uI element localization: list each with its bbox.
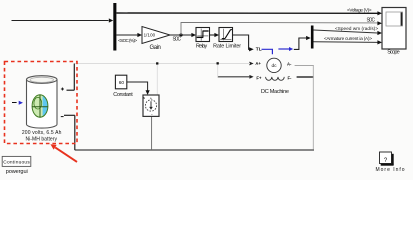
svg-text:Scope: Scope xyxy=(387,50,400,56)
svg-text:<Speed wm (rad/s)>: <Speed wm (rad/s)> xyxy=(335,26,378,31)
svg-text:DC Machine: DC Machine xyxy=(261,89,289,95)
svg-text:Continuous: Continuous xyxy=(3,160,30,166)
svg-text:<Voltage (V)>: <Voltage (V)> xyxy=(347,7,372,12)
svg-text:s: s xyxy=(143,96,145,100)
svg-text:TL: TL xyxy=(256,47,262,53)
svg-text:Rate Limiter: Rate Limiter xyxy=(213,44,241,50)
svg-text:SOC: SOC xyxy=(367,18,376,24)
svg-text:Constant: Constant xyxy=(113,92,133,98)
svg-text:60: 60 xyxy=(119,80,125,86)
svg-text:Ni-MH battery: Ni-MH battery xyxy=(25,137,57,143)
svg-text:Relay: Relay xyxy=(196,44,208,50)
svg-text:F+: F+ xyxy=(256,75,262,80)
svg-text:powergui: powergui xyxy=(6,169,28,175)
svg-text:Gain: Gain xyxy=(150,45,161,51)
svg-text:<Armature current ia (A)>: <Armature current ia (A)> xyxy=(324,36,372,41)
svg-text:F-: F- xyxy=(288,75,293,80)
svg-text:1/100: 1/100 xyxy=(144,32,156,37)
svg-text:200 volts, 6.5 Ah: 200 volts, 6.5 Ah xyxy=(22,130,62,136)
svg-text:dc: dc xyxy=(271,63,277,69)
svg-text:A-: A- xyxy=(287,61,292,66)
svg-text:<SOC (%)>: <SOC (%)> xyxy=(118,38,137,43)
svg-text:A+: A+ xyxy=(255,61,261,66)
svg-text:More Info: More Info xyxy=(376,167,405,173)
svg-text:SOC: SOC xyxy=(173,37,182,43)
